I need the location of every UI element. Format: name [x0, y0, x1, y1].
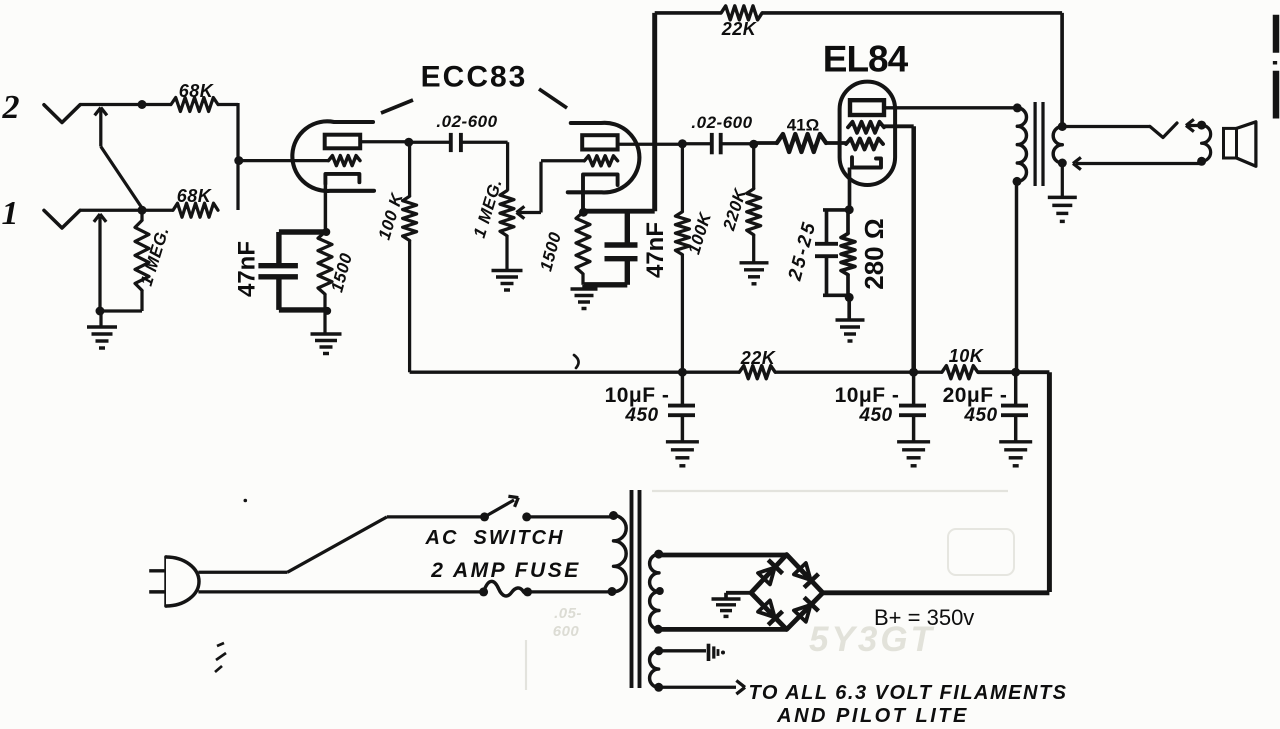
wire V1a grid [239, 159, 329, 162]
capacitor 20uF-450 filter 3 [1014, 372, 1017, 407]
tube EL84 envelope [840, 82, 896, 185]
scan artifact right edge tick [1273, 61, 1277, 65]
node switch left [480, 512, 489, 521]
resistor 280 ohm cathode [846, 210, 850, 234]
arrow speaker return [1076, 162, 1202, 165]
svg-text:450: 450 [624, 405, 658, 426]
resistor 1500 V1a cathode [318, 232, 332, 294]
svg-text:10K: 10K [949, 346, 985, 366]
node speaker plug top [1197, 121, 1206, 130]
capacitor 10uF-450 filter 1 [681, 372, 684, 407]
wire EL84 cathode [848, 168, 852, 210]
node cathode bottom junction [323, 307, 331, 315]
hum balance capacitor [707, 644, 711, 661]
input jack 2 contact [44, 105, 80, 123]
wire filament top to hum cap [659, 649, 706, 652]
svg-text:AC SWITCH: AC SWITCH [425, 527, 565, 549]
node filter cap 3 / OT B+ [1011, 368, 1020, 377]
wire plug bottom to fuse [198, 590, 483, 593]
junction node input ground [96, 307, 105, 316]
svg-text:10μF -: 10μF - [835, 384, 900, 407]
AC plug [164, 557, 167, 606]
diode D3 bottom-left [758, 600, 775, 617]
wire B+ feed from rectifier [1047, 372, 1052, 592]
output transformer secondary winding [1053, 127, 1062, 164]
input jack 1 tip arrow [98, 217, 101, 311]
wire V1a plate to node [361, 140, 409, 143]
resistor 22K feedback [721, 6, 762, 20]
speaker [1224, 128, 1237, 158]
svg-text:47nF: 47nF [234, 241, 261, 297]
output jack tip contact [1150, 123, 1177, 138]
power transformer primary winding [614, 516, 627, 592]
wire ground bus input [100, 309, 142, 312]
svg-text:B+ = 350v: B+ = 350v [874, 605, 974, 630]
node filter cap 2 [909, 368, 918, 377]
node HV center tap [656, 587, 664, 595]
node filament bottom [654, 683, 663, 692]
wire EL84 plate to output transformer [884, 106, 1017, 109]
wire V1b plate to node [617, 143, 682, 146]
capacitor .02-600 coupling 1 [409, 141, 451, 144]
resistor 41 ohm grid stopper [754, 141, 777, 145]
triode V1a grid [329, 156, 361, 166]
ground input jacks [99, 311, 102, 327]
ground volume pot [492, 269, 523, 272]
input jack 2 tip arrow [99, 110, 102, 147]
wire OT primary bottom to B+ node [1015, 181, 1018, 372]
node V1b cathode junction [579, 208, 588, 217]
node HV top [654, 550, 663, 559]
output transformer primary winding [1017, 108, 1026, 181]
resistor 22K supply dropper [739, 366, 775, 379]
diode D1 top-left [758, 568, 775, 585]
node switch right [522, 512, 531, 521]
triode V1b plate [582, 135, 617, 149]
triode V1a plate [325, 135, 361, 149]
resistor R 68K (jack2) [171, 98, 218, 112]
svg-text:20μF -: 20μF - [943, 384, 1008, 407]
ground bridge [724, 593, 728, 598]
triode V1a cathode [325, 174, 359, 184]
EL84 screen grid [848, 122, 884, 133]
wire HV bottom to bridge [658, 627, 787, 632]
wire jack2 tip line [80, 103, 142, 106]
node PT primary bottom [608, 587, 617, 596]
wire NFB rail right drop to speaker line [1060, 13, 1064, 127]
ground V1a cathode [323, 311, 326, 334]
leader line ECC83 left [381, 100, 413, 113]
wire jack1 tip line [80, 209, 142, 212]
resistor 100K V1b plate load [681, 144, 684, 212]
capacitor 25-25 cathode bypass [825, 210, 829, 244]
node HV bottom [654, 625, 663, 634]
svg-text:ECC83: ECC83 [421, 61, 528, 94]
scan artifact right edge bar 1 [1273, 15, 1279, 53]
output transformer core [1033, 102, 1036, 186]
fuse 2 AMP [484, 581, 528, 596]
triode V1b cathode [583, 174, 618, 211]
node OT secondary bottom [1058, 159, 1067, 168]
svg-text:47nF: 47nF [642, 222, 669, 278]
wire wiper to V1b grid [539, 162, 542, 213]
arrow speaker hot [1188, 124, 1202, 127]
wire filament bottom to arrow [659, 686, 736, 689]
svg-text:AND PILOT LITE: AND PILOT LITE [776, 705, 969, 727]
resistor 10K supply dropper [942, 366, 978, 379]
wire plug top to switch [198, 571, 287, 574]
svg-text:1: 1 [2, 195, 19, 232]
potentiometer 1 MEG volume [500, 191, 514, 236]
junction node jack2 [138, 100, 147, 109]
wire fuse to transformer [528, 590, 612, 593]
power transformer core [630, 490, 634, 688]
tube ECC83 triode V1a envelope [292, 121, 374, 191]
node V1b plate junction [678, 139, 687, 148]
node grid stopper junction [749, 140, 758, 149]
capacitor .02-600 coupling 2 [682, 142, 711, 145]
wire feedback line from speaker to V1b cathode [652, 13, 657, 211]
EL84 cathode [852, 157, 881, 167]
svg-text:68K: 68K [179, 81, 215, 101]
node filter cap 1 [678, 368, 687, 377]
input jack 1 contact [44, 210, 80, 228]
wire EL84 screen to supply node [884, 124, 914, 128]
stray dot [244, 499, 248, 503]
triode V1b grid [584, 156, 617, 166]
wire NFB top rail [655, 11, 721, 15]
capacitor 47nF V1b cathode bypass [584, 209, 655, 214]
diode D2 top-right [794, 563, 811, 580]
svg-text:EL84: EL84 [823, 39, 909, 80]
svg-text:22K: 22K [721, 19, 758, 39]
wire HV top to bridge [659, 553, 787, 558]
wire jack2 to resistor [142, 103, 171, 106]
tube ECC83 triode V1b envelope [568, 123, 640, 193]
wire B+ distribution rail [410, 370, 740, 373]
svg-text:.05-: .05- [554, 605, 582, 622]
ground filter cap 3 [999, 440, 1032, 443]
resistor R 68K (jack1) [173, 203, 218, 217]
wire jack1 to resistor [142, 209, 173, 212]
bridge rectifier diamond [751, 555, 823, 630]
node filament top [654, 646, 663, 655]
stray marks dashes [217, 643, 224, 646]
power transformer filament winding [650, 651, 659, 688]
stray mark arc [574, 355, 579, 368]
node EL84 cathode junction [845, 205, 854, 214]
capacitor 47nF V1a cathode bypass [279, 229, 326, 234]
svg-text:68K: 68K [177, 186, 213, 206]
node V1a cathode junction [322, 228, 330, 236]
resistor 1 MEG grid leak [140, 210, 143, 220]
power transformer HV secondary [650, 554, 659, 629]
ground filter cap 2 [897, 440, 930, 443]
node V1a plate junction [404, 138, 413, 147]
resistor 1500 V1b cathode [576, 212, 590, 274]
svg-text:22K: 22K [740, 348, 777, 368]
ground V1b cathode [582, 285, 585, 289]
EL84 control grid [846, 139, 883, 150]
speaker plug coil [1202, 125, 1211, 161]
wire 68K to grid bus [218, 103, 238, 106]
wire V1a cathode [324, 184, 327, 232]
node PT primary top [609, 511, 618, 520]
svg-text:450: 450 [858, 405, 892, 426]
AC switch arm [485, 500, 515, 517]
svg-text:600: 600 [553, 623, 580, 640]
wire coupling 1 down to volume pot [506, 142, 509, 190]
node grid bus junction [234, 156, 243, 165]
ghost erased lines (scan artifact) [652, 490, 1008, 492]
ground 220K [740, 261, 769, 264]
EL84 plate [850, 100, 884, 115]
scan artifact right edge bar 2 [1273, 71, 1279, 119]
wire cathode network top [823, 208, 849, 212]
wire switch to transformer [527, 515, 613, 518]
resistor 100 K V1a plate load [408, 142, 411, 196]
node OT primary bottom [1013, 177, 1022, 186]
svg-text:450: 450 [963, 405, 997, 426]
node OT secondary top [1058, 122, 1067, 131]
svg-text:2 AMP FUSE: 2 AMP FUSE [430, 559, 580, 582]
resistor 220K grid return [752, 144, 755, 189]
wire bridge minus to ground [726, 591, 751, 595]
wire diagonal jack2 to jack1 node [101, 147, 142, 209]
ground filter cap 1 [666, 440, 699, 443]
diode D4 bottom-right [794, 605, 811, 622]
leader line ECC83 right [539, 89, 567, 108]
svg-text:TO ALL 6.3 VOLT FILAMENTS: TO ALL 6.3 VOLT FILAMENTS [749, 682, 1068, 704]
ground OT secondary [1061, 163, 1064, 197]
node speaker plug bottom [1197, 157, 1206, 166]
wire secondary top to output jack [1062, 125, 1150, 128]
svg-text:.02-600: .02-600 [436, 112, 497, 131]
node fuse right [523, 587, 532, 596]
svg-text:.02-600: .02-600 [691, 113, 752, 132]
svg-text:2: 2 [2, 89, 20, 126]
ground EL84 cathode [847, 297, 851, 320]
svg-text:10μF -: 10μF - [605, 384, 670, 407]
junction node jack1 [138, 206, 147, 215]
node cathode network bottom [845, 293, 854, 302]
svg-text:41Ω: 41Ω [787, 116, 820, 135]
node fuse left [479, 587, 488, 596]
capacitor 10uF-450 filter 2 [912, 372, 915, 407]
pot wiper arrow [518, 211, 541, 214]
svg-text:280 Ω: 280 Ω [859, 218, 889, 289]
node OT primary top [1013, 103, 1022, 112]
